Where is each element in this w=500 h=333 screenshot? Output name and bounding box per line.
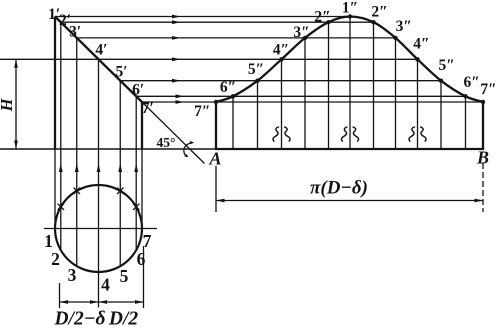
wire 45-degree reference line extension beyond 7' [142,102,205,164]
svg-text:6′: 6′ [132,81,144,98]
wire front-view left edge (generatrix 1) [54,17,56,150]
node curve points 7''..1''..7'' (dots) [214,100,218,104]
wire projection ray 2' to 2'' [61,21,374,23]
wire development division line 6 [349,17,351,150]
wire projection ray 6' to 6'' [135,95,465,97]
wire development right edge at B [482,102,484,149]
wire extension line left (D/2-delta) [59,283,61,308]
svg-text:1: 1 [44,231,53,251]
svg-text:6″: 6″ [220,79,236,96]
svg-text:5: 5 [120,266,129,286]
wire development bottom edge A-B [215,148,484,150]
break mark 2 (wavy omission symbol) [341,127,347,142]
wire development division line 7 [373,22,375,149]
node tick mark point 8b [133,204,139,210]
wire development division line 3 [281,59,283,149]
top view circle [55,185,142,272]
wire development division line 2 [257,81,259,149]
node tick mark point 12 [58,204,64,210]
svg-text:D/2: D/2 [108,309,139,329]
svg-text:5″: 5″ [248,61,264,78]
svg-text:4″: 4″ [273,42,289,59]
node tick mark point 8 [117,188,123,194]
wire circle horizontal centerline [44,228,157,230]
node tick mark point 10 [74,188,80,194]
break mark 3 (wavy omission symbol) [409,127,415,142]
wire angle arc at 45 degrees [184,143,193,157]
wire projection ray 4' to 4'' [0,58,418,60]
wire development division line 5 [328,22,330,149]
wire development division line 1 [232,96,234,149]
wire generatrix 6 projection line (circle point 6 up to cut line) [135,96,137,250]
svg-text:3″: 3″ [293,24,309,41]
wire development division line 8 [395,38,397,149]
wire development division line 9 [417,59,419,149]
svg-text:7′: 7′ [142,100,154,117]
wire front-view right edge (generatrix 7) [141,102,143,149]
svg-text:4: 4 [101,274,110,294]
svg-text:3: 3 [68,265,77,285]
wire baseline left (ground line of front view) [0,148,216,150]
wire dimension line D/2-delta and D/2 [60,301,144,303]
wire generatrix 4 / circle vertical centerline projection line [98,59,100,307]
svg-text:1″: 1″ [342,0,358,17]
svg-text:7″: 7″ [194,103,210,120]
wire generatrix 5 projection line (circle point 5 up to cut line) [119,81,121,267]
wire projection ray 7' to 7'' [142,101,483,103]
wire tangent projection line of point 1 below baseline [54,149,56,228]
wire development division line 10 [440,81,442,149]
svg-text:2″: 2″ [314,9,330,26]
break mark 1 (wavy omission symbol) [273,127,279,142]
wire development left edge at A [215,102,217,149]
svg-text:5″: 5″ [438,57,454,74]
wire development division line 4 [304,38,306,149]
wire extension line right (D/2) [143,246,145,308]
svg-text:A: A [208,149,221,169]
svg-text:π(D−δ): π(D−δ) [310,178,368,199]
svg-text:5′: 5′ [116,63,128,80]
svg-text:7″: 7″ [480,81,496,98]
wire extension line below A [215,166,217,212]
wire projection ray 3' to 3'' [76,37,396,39]
svg-text:3″: 3″ [396,18,412,35]
svg-text:3′: 3′ [69,23,81,40]
svg-text:4′: 4′ [95,41,107,58]
wire generatrix 3 projection line (circle point 3 up to cut line) [76,38,78,266]
svg-text:2: 2 [51,249,60,269]
wire development sinusoid curve 7''-1''-7'' [216,17,483,103]
wire cut line 1'-7' (45 degree ellipse edge) [55,17,142,103]
svg-text:6: 6 [137,249,146,269]
wire projection ray 1' to 1'' [55,16,350,18]
wire development division line 11 [465,96,467,149]
wire generatrix 2 projection line (circle point 2 up to cut line) [60,22,62,250]
wire tangent projection line of point 7 below baseline [141,149,143,228]
svg-text:D/2−δ: D/2−δ [53,309,105,329]
svg-text:B: B [476,148,489,168]
svg-text:6″: 6″ [464,74,480,91]
wire dimension line pi(D-delta) [216,200,483,202]
svg-text:H: H [0,97,16,112]
svg-text:4″: 4″ [413,36,429,53]
wire H dimension line [15,59,17,149]
wire extension line below B [482,163,484,212]
svg-text:2″: 2″ [371,4,387,21]
svg-text:45°: 45° [157,135,176,150]
wire projection ray 5' to 5'' [119,80,441,82]
